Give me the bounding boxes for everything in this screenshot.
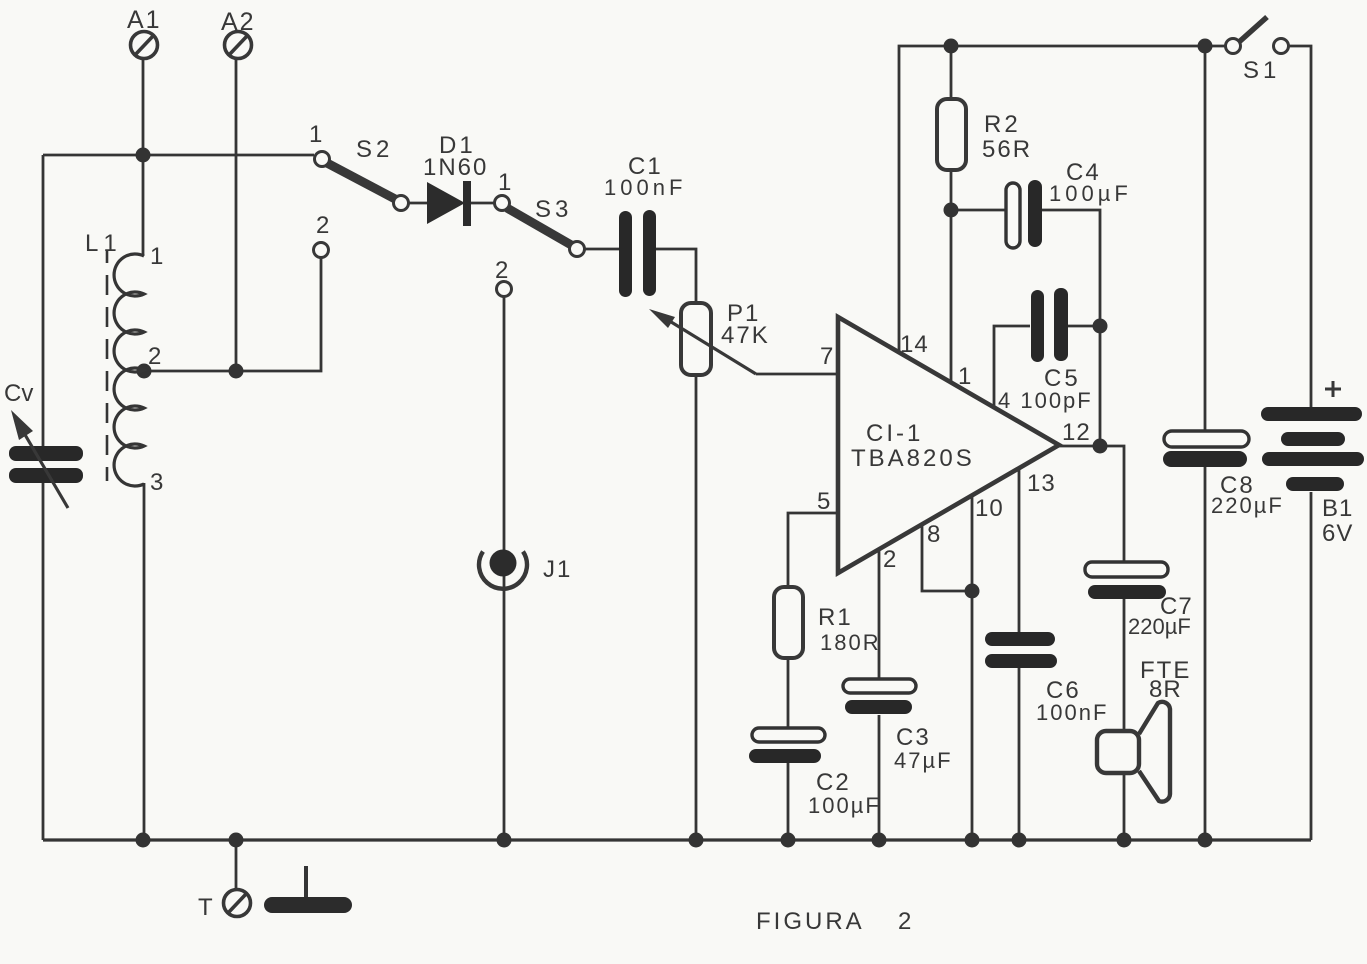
svg-text:1N60: 1N60 <box>423 154 488 181</box>
svg-text:2: 2 <box>883 546 897 573</box>
svg-text:14: 14 <box>900 331 929 358</box>
svg-text:FIGURA: FIGURA <box>756 908 865 935</box>
svg-text:R2: R2 <box>984 111 1021 138</box>
svg-text:Cv: Cv <box>4 380 33 407</box>
svg-text:7: 7 <box>820 343 834 370</box>
svg-text:T: T <box>198 894 215 921</box>
svg-text:13: 13 <box>1027 470 1056 497</box>
svg-text:1: 1 <box>309 121 324 148</box>
svg-text:2: 2 <box>898 908 911 935</box>
svg-text:S1: S1 <box>1243 57 1280 84</box>
svg-text:S3: S3 <box>535 196 572 223</box>
svg-text:1: 1 <box>498 169 513 196</box>
svg-text:R1: R1 <box>818 604 853 631</box>
svg-text:A2: A2 <box>221 8 256 36</box>
svg-text:CI-1: CI-1 <box>866 420 923 447</box>
svg-text:L1: L1 <box>85 230 122 257</box>
svg-text:2: 2 <box>316 212 331 239</box>
svg-text:4 100pF: 4 100pF <box>998 388 1093 413</box>
svg-text:B1: B1 <box>1322 495 1353 522</box>
svg-text:6V: 6V <box>1322 520 1353 547</box>
svg-text:56R: 56R <box>982 136 1032 163</box>
svg-text:100µF: 100µF <box>808 793 881 818</box>
svg-text:220µF: 220µF <box>1128 614 1191 639</box>
svg-text:100nF: 100nF <box>1036 700 1108 725</box>
svg-text:C2: C2 <box>816 769 851 796</box>
svg-text:J1: J1 <box>543 556 572 583</box>
svg-text:220µF: 220µF <box>1211 493 1284 518</box>
svg-text:A1: A1 <box>127 6 162 34</box>
svg-text:TBA820S: TBA820S <box>851 445 975 472</box>
svg-text:1: 1 <box>958 363 972 390</box>
svg-text:2: 2 <box>495 257 510 284</box>
svg-text:100nF: 100nF <box>604 175 686 200</box>
svg-text:1: 1 <box>150 243 165 270</box>
svg-text:47µF: 47µF <box>894 748 953 773</box>
svg-text:12: 12 <box>1062 419 1091 446</box>
svg-text:10: 10 <box>975 495 1004 522</box>
svg-text:100µF: 100µF <box>1049 181 1132 206</box>
svg-text:8R: 8R <box>1149 676 1182 703</box>
svg-text:5: 5 <box>817 488 831 515</box>
svg-text:3: 3 <box>150 469 165 496</box>
svg-text:8: 8 <box>927 521 941 548</box>
svg-text:2: 2 <box>148 343 163 370</box>
svg-text:C3: C3 <box>896 724 931 751</box>
svg-text:47K: 47K <box>721 322 770 349</box>
svg-text:180R: 180R <box>820 630 881 655</box>
svg-text:S2: S2 <box>356 136 393 163</box>
